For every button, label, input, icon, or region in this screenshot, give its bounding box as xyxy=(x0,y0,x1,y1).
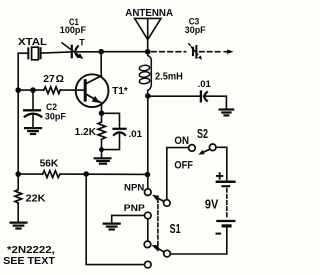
note text xyxy=(3,245,55,267)
svg-text:T1*: T1* xyxy=(112,86,128,97)
node: 56K branch junction xyxy=(83,171,89,177)
capacitor C4 .01 xyxy=(201,92,227,109)
svg-text:.01: .01 xyxy=(198,79,212,90)
crystal XTAL xyxy=(18,47,70,60)
switch S2 pole xyxy=(209,144,216,151)
svg-text:27 Ω: 27 Ω xyxy=(43,74,64,85)
trimmer capacitor C3 (dotted) xyxy=(189,44,202,60)
svg-text:1.2K: 1.2K xyxy=(75,127,97,138)
wire: S1 pole B to battery minus xyxy=(170,228,227,254)
switch S1 arm A xyxy=(152,195,164,202)
switch S1 arm B xyxy=(152,245,165,252)
switch S1 pole A xyxy=(164,200,171,207)
wire: coil junction to C4 xyxy=(148,95,200,97)
svg-text:9V: 9V xyxy=(205,197,219,212)
resistor 56K xyxy=(18,171,147,178)
svg-text:22K: 22K xyxy=(26,194,46,205)
wire: PNP contact down to S1 lower contact xyxy=(147,219,149,241)
svg-text:ANTENNA: ANTENNA xyxy=(125,8,173,19)
wire: 56K branch down to S1 bottom contact xyxy=(86,174,144,265)
wire: S2 pole to battery plus xyxy=(216,147,227,180)
ground (1.2K) xyxy=(95,158,111,163)
svg-text:30pF: 30pF xyxy=(45,111,66,121)
node: emitter junction xyxy=(99,110,105,116)
svg-text:XTAL: XTAL xyxy=(18,37,48,48)
node: 56K/collector junction xyxy=(145,172,151,178)
wire: left vertical rail xyxy=(17,53,19,174)
switch S2 arm xyxy=(198,149,210,154)
switch S1 contact PNP xyxy=(145,212,152,219)
wire: PNP contact to ground xyxy=(112,215,145,223)
capacitor C5 .01 xyxy=(102,129,126,150)
node: rail/56K/22K junction xyxy=(15,171,21,177)
label C1 value xyxy=(60,17,86,48)
node: C2 junction xyxy=(30,87,36,93)
svg-text:30pF: 30pF xyxy=(185,25,206,35)
svg-text:2.5mH: 2.5mH xyxy=(155,71,183,83)
svg-text:56K: 56K xyxy=(40,159,59,170)
svg-text:ON: ON xyxy=(174,135,189,147)
wire: dashed output line right segment xyxy=(200,51,221,53)
switch S1 contact lower-left xyxy=(144,241,151,248)
wire: top rail to antenna xyxy=(101,51,148,53)
svg-text:OFF: OFF xyxy=(174,159,193,171)
wire: collector line down to NPN contact xyxy=(147,96,149,189)
transistor T1 xyxy=(76,74,109,113)
resistor 22K xyxy=(15,174,22,222)
node: coil bottom junction xyxy=(145,93,151,99)
svg-text:*2N2222,: *2N2222, xyxy=(7,245,55,256)
inductor L1 2.5mH xyxy=(139,40,151,96)
svg-text:.01: .01 xyxy=(128,129,143,140)
label battery plus xyxy=(216,172,223,179)
svg-text:SEE TEXT: SEE TEXT xyxy=(3,256,55,267)
resistor 27 ohm xyxy=(18,87,84,94)
svg-text:S2: S2 xyxy=(197,127,208,141)
label C3 value xyxy=(185,17,206,35)
battery B1 9V xyxy=(217,182,234,226)
wire: S1 pole A up to S2 xyxy=(167,148,189,200)
trimmer capacitor C1 xyxy=(62,43,99,59)
wire: collector drop xyxy=(100,52,102,76)
switch S2 contact ON xyxy=(189,145,196,152)
ground (C2) xyxy=(25,128,41,134)
ground (PNP) xyxy=(104,224,120,230)
svg-text:S1: S1 xyxy=(170,222,181,236)
capacitor C2 30pF xyxy=(24,90,41,127)
wire: dashed output line left segment xyxy=(152,51,186,53)
label battery minus xyxy=(216,233,222,235)
svg-text:100pF: 100pF xyxy=(60,25,86,36)
switch S1 pole B xyxy=(164,250,171,257)
svg-text:C2: C2 xyxy=(46,102,57,112)
antenna xyxy=(135,18,161,51)
ground (22K) xyxy=(11,223,27,229)
node: antenna junction xyxy=(145,49,151,55)
resistor 1.2K xyxy=(98,113,105,157)
svg-text:PNP: PNP xyxy=(124,202,145,213)
node: 1.2K bottom junction xyxy=(99,147,104,152)
switch S1 contact NPN xyxy=(145,189,152,196)
wire: emitter to C5 branch xyxy=(102,113,120,128)
dashed link S1 xyxy=(157,199,159,251)
label C2 value xyxy=(45,102,66,122)
node: junction C1/collector xyxy=(98,49,104,55)
svg-text:NPN: NPN xyxy=(124,181,145,192)
node: rail/base junction xyxy=(15,87,21,93)
switch S1 bottom contact xyxy=(145,261,152,268)
arrow: output xyxy=(224,49,233,54)
ground (C4) xyxy=(220,110,234,116)
svg-text:T: T xyxy=(79,38,85,48)
